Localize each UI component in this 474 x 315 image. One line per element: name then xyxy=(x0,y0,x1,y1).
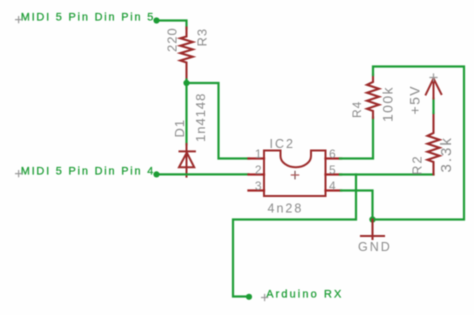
svg-text:1n4148: 1n4148 xyxy=(193,93,208,142)
wire R2 top to +5V xyxy=(432,99,434,114)
wire pin5 to R2 bottom xyxy=(340,173,434,175)
IC2 origin cross xyxy=(294,171,296,178)
svg-text:MIDI 5 Pin Din Pin 5: MIDI 5 Pin Din Pin 5 xyxy=(21,11,155,23)
svg-text:3: 3 xyxy=(255,179,262,193)
svg-text:+5V: +5V xyxy=(407,85,423,115)
svg-text:R4: R4 xyxy=(350,101,364,118)
resistor R4 xyxy=(367,75,379,119)
diode D1 xyxy=(179,144,195,177)
junction dot GND xyxy=(369,216,375,222)
junction dot R3/D1/pin1 xyxy=(183,80,189,86)
origin cross of MIDI pin5 label xyxy=(16,17,22,23)
resistor R2 xyxy=(428,113,440,175)
+5V origin cross xyxy=(430,74,437,81)
node dot Arduino RX xyxy=(246,294,252,300)
svg-text:220: 220 xyxy=(165,27,180,52)
svg-text:4n28: 4n28 xyxy=(268,202,304,216)
wire D1 branch xyxy=(185,83,187,145)
svg-text:4: 4 xyxy=(329,179,336,193)
wire pin6 to R4 xyxy=(340,118,373,159)
op-amp/optocoupler IC2 body xyxy=(264,151,326,197)
resistor R3 xyxy=(180,28,192,81)
pin 1 stub xyxy=(249,157,265,159)
wire R4 top / GND loop xyxy=(373,67,465,220)
svg-text:D1: D1 xyxy=(172,119,187,138)
node dot pin5 net xyxy=(153,17,159,23)
origin cross of MIDI pin4 label xyxy=(16,171,22,177)
svg-text:3.3k: 3.3k xyxy=(438,136,455,172)
svg-text:6: 6 xyxy=(329,147,336,161)
pin 3 stub xyxy=(249,189,265,191)
pin 2 stub xyxy=(249,173,265,175)
svg-text:5: 5 xyxy=(329,163,336,177)
origin cross of Arduino RX label xyxy=(262,295,268,301)
wire node at R3 bottom xyxy=(185,80,187,84)
wire pin5 net: dot to R3 top xyxy=(157,21,187,29)
svg-text:IC2: IC2 xyxy=(270,137,295,151)
ground GND symbol xyxy=(361,220,384,240)
svg-text:100k: 100k xyxy=(380,86,396,122)
pin 5 stub xyxy=(326,173,342,175)
svg-text:R2: R2 xyxy=(410,154,425,175)
supply +5V arrow xyxy=(426,78,442,99)
svg-text:R3: R3 xyxy=(195,28,210,47)
svg-text:MIDI 5 Pin Din Pin 4: MIDI 5 Pin Din Pin 4 xyxy=(21,165,155,177)
node dot pin4 net xyxy=(153,171,159,177)
wire pin4 net to IC pin 2 xyxy=(157,173,249,175)
pin 4 stub xyxy=(326,189,342,191)
svg-text:GND: GND xyxy=(358,240,392,254)
svg-text:Arduino RX: Arduino RX xyxy=(266,288,343,300)
wire pin4 to GND xyxy=(341,191,373,220)
pin 6 stub xyxy=(326,157,342,159)
svg-text:2: 2 xyxy=(255,163,262,177)
wire pin5 branch down to Arduino RX xyxy=(233,175,356,297)
wire to IC pin 1 xyxy=(187,83,250,159)
svg-text:1: 1 xyxy=(255,147,262,161)
